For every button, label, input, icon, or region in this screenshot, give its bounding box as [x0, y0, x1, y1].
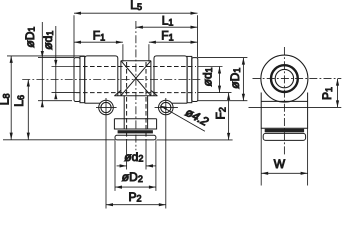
svg-text:øD1: øD1: [23, 27, 37, 48]
svg-text:L1: L1: [162, 14, 174, 28]
svg-text:F1: F1: [161, 29, 173, 43]
svg-text:L6: L6: [12, 95, 26, 107]
svg-text:øD1: øD1: [228, 68, 242, 89]
svg-text:ød1: ød1: [200, 67, 214, 86]
svg-text:F2: F2: [214, 107, 228, 119]
svg-text:øD2: øD2: [122, 170, 143, 184]
svg-text:P2: P2: [129, 190, 142, 204]
svg-text:F1: F1: [93, 29, 105, 43]
svg-text:ød2: ød2: [124, 150, 143, 164]
svg-text:L8: L8: [0, 93, 12, 105]
svg-text:L5: L5: [130, 0, 142, 12]
svg-text:P1: P1: [320, 87, 334, 100]
svg-text:W: W: [274, 157, 286, 171]
svg-text:ø4.2: ø4.2: [183, 105, 211, 129]
svg-text:ød1: ød1: [41, 31, 55, 50]
